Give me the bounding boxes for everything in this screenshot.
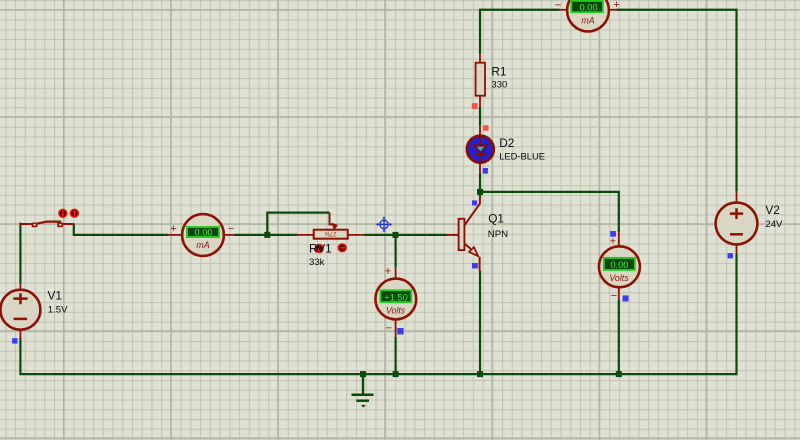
svg-text:NPN: NPN	[488, 229, 508, 240]
RV1 adjust button down	[315, 245, 323, 253]
node marker (origin crosshair)	[376, 216, 392, 232]
wire: ammeter right pin to RV1 left pin	[235, 234, 298, 236]
V2 label	[765, 203, 779, 217]
svg-text:RV1: RV1	[309, 241, 332, 255]
wire: V1 bottom to bottom rail, bottom rail, right rail up to V2 bottom	[20, 254, 736, 374]
left voltmeter plus sign	[385, 266, 391, 278]
LED top pin marker	[483, 125, 488, 130]
junction node at emitter on bottom rail	[477, 371, 483, 377]
left voltmeter bottom pin marker	[397, 328, 403, 334]
junction node at left voltmeter tap	[393, 232, 399, 238]
V2 pin marker	[728, 253, 733, 258]
wire: left rail from switch down to V1 top	[19, 223, 21, 283]
D2 value LED-BLUE	[499, 150, 545, 161]
wire: collector junction to right voltmeter branch	[480, 192, 619, 232]
svg-text:33k: 33k	[309, 257, 325, 268]
transistor Q1	[447, 198, 480, 271]
svg-text:330: 330	[491, 80, 507, 91]
svg-text:R1: R1	[491, 64, 506, 78]
wire: RV1 right pin to Q1 base pin	[364, 234, 447, 236]
ammeter (top, mA)	[560, 0, 617, 31]
switch toggle button up	[71, 209, 79, 217]
battery V1	[0, 283, 40, 339]
left voltmeter minus sign	[386, 323, 392, 335]
wire: left voltmeter bottom to bottom rail	[395, 337, 397, 374]
wire: right voltmeter bottom to bottom rail	[618, 300, 620, 374]
svg-text:0.00: 0.00	[610, 260, 628, 270]
svg-text:+1.50: +1.50	[384, 293, 408, 303]
wire: switch right pin down and to ammeter left pin	[74, 224, 168, 235]
svg-text:V1: V1	[48, 288, 62, 302]
svg-text:+: +	[610, 236, 616, 248]
RV1 wiper arrow	[330, 213, 338, 231]
top ammeter plus sign	[613, 0, 619, 11]
svg-text:LED-BLUE: LED-BLUE	[499, 150, 545, 161]
svg-text:+: +	[170, 223, 176, 235]
top ammeter minus sign	[555, 0, 561, 12]
Q1 value NPN	[488, 229, 508, 240]
V1 pin marker	[12, 338, 17, 343]
right voltmeter bottom pin marker	[623, 295, 629, 301]
switch	[20, 222, 75, 228]
V2 value 24V	[765, 219, 783, 230]
left ammeter minus sign	[228, 223, 234, 235]
V1 value 1.5V	[48, 304, 68, 315]
D2 bottom pin marker	[483, 168, 488, 174]
switch toggle button down	[59, 209, 67, 217]
left ammeter plus sign	[170, 223, 176, 235]
svg-text:0.00: 0.00	[194, 228, 212, 238]
LED D2	[467, 125, 494, 173]
svg-text:24V: 24V	[765, 219, 783, 230]
junction node at left voltmeter on bottom rail	[393, 371, 399, 377]
R1 pin marker	[472, 103, 478, 109]
wire: LED bottom to collector junction	[479, 173, 481, 198]
svg-text:0.00: 0.00	[580, 2, 598, 12]
wire: ground stem	[362, 374, 364, 394]
Q1 emitter pin marker	[472, 263, 478, 268]
svg-text:+: +	[385, 266, 391, 278]
svg-text:mA: mA	[581, 15, 594, 25]
svg-text:−: −	[555, 0, 561, 12]
svg-text:Volts: Volts	[609, 273, 629, 283]
voltmeter (right, Volts)	[599, 232, 640, 300]
junction node at collector net	[477, 189, 483, 195]
svg-text:1.5V: 1.5V	[48, 304, 68, 315]
R1 label	[491, 64, 506, 78]
voltmeter (left, Volts)	[375, 267, 416, 337]
ground	[352, 395, 374, 408]
svg-text:Volts: Volts	[386, 305, 406, 315]
svg-text:27%: 27%	[324, 230, 337, 236]
Q1 label	[488, 211, 504, 225]
V1 label	[48, 288, 62, 302]
right voltmeter top pin marker	[610, 231, 616, 237]
wire: right rail V2 top up to top-right corner and top rail to ammeter	[480, 10, 737, 191]
ammeter (left, mA)	[168, 214, 235, 256]
svg-text:+: +	[613, 0, 619, 11]
wire: Q1 emitter down to bottom rail	[479, 271, 481, 375]
resistor R1	[476, 53, 485, 107]
svg-text:mA: mA	[196, 240, 209, 250]
svg-text:−: −	[228, 223, 234, 235]
wire: base junction down to left voltmeter top	[395, 235, 397, 267]
wire: R1 bottom to LED top	[479, 107, 481, 125]
battery V2	[716, 191, 758, 254]
svg-text:D2: D2	[499, 136, 514, 150]
junction node at right voltmeter on bottom rail	[616, 371, 622, 377]
RV1 adjust button up	[338, 244, 346, 252]
right voltmeter minus sign	[611, 290, 617, 302]
svg-text:−: −	[611, 290, 617, 302]
D2 label	[499, 136, 514, 150]
potentiometer RV1	[298, 230, 364, 239]
right voltmeter plus sign	[610, 236, 616, 248]
svg-text:V2: V2	[765, 203, 779, 217]
junction node at ground on bottom rail	[360, 371, 366, 377]
RV1 value 33k	[309, 257, 325, 268]
Q1 collector pin marker	[472, 200, 477, 205]
RV1 label	[309, 241, 332, 255]
R1 value 330	[491, 80, 507, 91]
svg-text:−: −	[386, 323, 392, 335]
svg-text:Q1: Q1	[488, 211, 504, 225]
junction node at RV1 wiper tap	[264, 232, 270, 238]
wire: wiper loop from junction up and right to RV1 wiper	[267, 213, 329, 235]
